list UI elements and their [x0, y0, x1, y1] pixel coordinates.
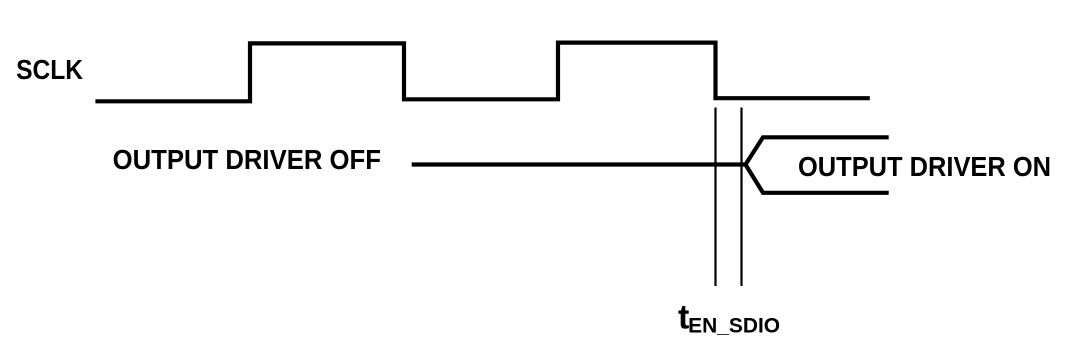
wire output driver off level with fork upper branch — [412, 137, 889, 164]
node timing marker line 2 — [740, 108, 742, 287]
svg-text:OUTPUT DRIVER ON: OUTPUT DRIVER ON — [798, 151, 1051, 182]
wire SCLK clock waveform — [95, 43, 869, 102]
node timing marker line 1 — [714, 108, 716, 287]
wire fork lower branch — [746, 165, 889, 193]
svg-text:SCLK: SCLK — [16, 54, 83, 85]
svg-text:EN_SDIO: EN_SDIO — [688, 315, 780, 338]
svg-text:OUTPUT DRIVER OFF: OUTPUT DRIVER OFF — [113, 144, 381, 175]
